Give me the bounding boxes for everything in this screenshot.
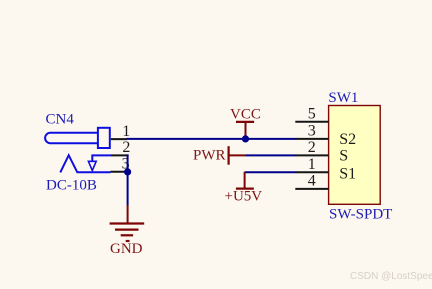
- SW1 pin 2: [296, 154, 328, 156]
- ground symbol GND bar 4: [126, 240, 130, 242]
- svg-text:S: S: [339, 147, 348, 164]
- power port VCC bar: [236, 121, 254, 123]
- SW1 pin 1: [296, 171, 328, 173]
- svg-text:2: 2: [122, 139, 130, 156]
- connector CN4 pin 1: [111, 138, 127, 140]
- svg-text:3: 3: [308, 123, 316, 140]
- SW1 pin 5: [295, 121, 328, 123]
- svg-text:4: 4: [308, 173, 316, 190]
- SW1 pin 3: [296, 138, 328, 140]
- power port PWR bar: [228, 146, 230, 165]
- svg-text:+U5V: +U5V: [225, 189, 263, 205]
- switch SW1 body: [329, 106, 381, 205]
- svg-text:S2: S2: [339, 131, 356, 148]
- svg-text:S1: S1: [339, 166, 356, 183]
- connector CN4 pin 2: [111, 154, 129, 156]
- ground symbol GND stem: [127, 205, 129, 224]
- svg-text:2: 2: [308, 139, 316, 156]
- svg-text:1: 1: [122, 123, 130, 140]
- junction at CN4 pin2/pin3/GND: [124, 168, 131, 175]
- svg-text:PWR: PWR: [193, 148, 226, 164]
- svg-text:SW1: SW1: [328, 90, 358, 106]
- junction at VCC / wire A: [242, 135, 249, 142]
- ground symbol GND bar 1: [110, 222, 145, 224]
- wire: PWR to SW1 pin2: [246, 154, 297, 156]
- ground symbol GND bar 3: [121, 234, 133, 236]
- connector CN4 tip rectangle: [98, 128, 110, 148]
- connector CN4 pin 3: [111, 171, 129, 173]
- svg-text:GND: GND: [110, 241, 143, 257]
- wire: CN4 pin2 down to junction and GND: [127, 154, 129, 205]
- svg-text:SW-SPDT: SW-SPDT: [329, 207, 392, 223]
- power port +U5V stem: [244, 172, 246, 189]
- svg-text:VCC: VCC: [230, 107, 261, 123]
- connector CN4 caret (pin 3 contact): [60, 155, 110, 172]
- wire: +U5V to SW1 pin1: [245, 171, 297, 173]
- svg-text:DC-10B: DC-10B: [46, 177, 97, 193]
- power port +U5V bar: [236, 188, 254, 190]
- svg-text:5: 5: [308, 106, 316, 123]
- connector CN4 barrel (pill body): [45, 133, 98, 143]
- ground symbol GND bar 2: [115, 229, 139, 231]
- power port PWR lead: [229, 154, 247, 156]
- SW1 pin 4: [295, 188, 328, 190]
- svg-text:CN4: CN4: [46, 112, 75, 128]
- svg-text:1: 1: [308, 156, 316, 173]
- connector CN4 pin2 contact line: [92, 155, 111, 161]
- svg-text:CSDN @LostSpeed: CSDN @LostSpeed: [350, 271, 432, 282]
- power port VCC stem: [245, 122, 247, 139]
- wire: CN4 pin1 to SW1 pin3: [127, 138, 297, 140]
- connector CN4 pin2 contact arrow: [88, 161, 96, 170]
